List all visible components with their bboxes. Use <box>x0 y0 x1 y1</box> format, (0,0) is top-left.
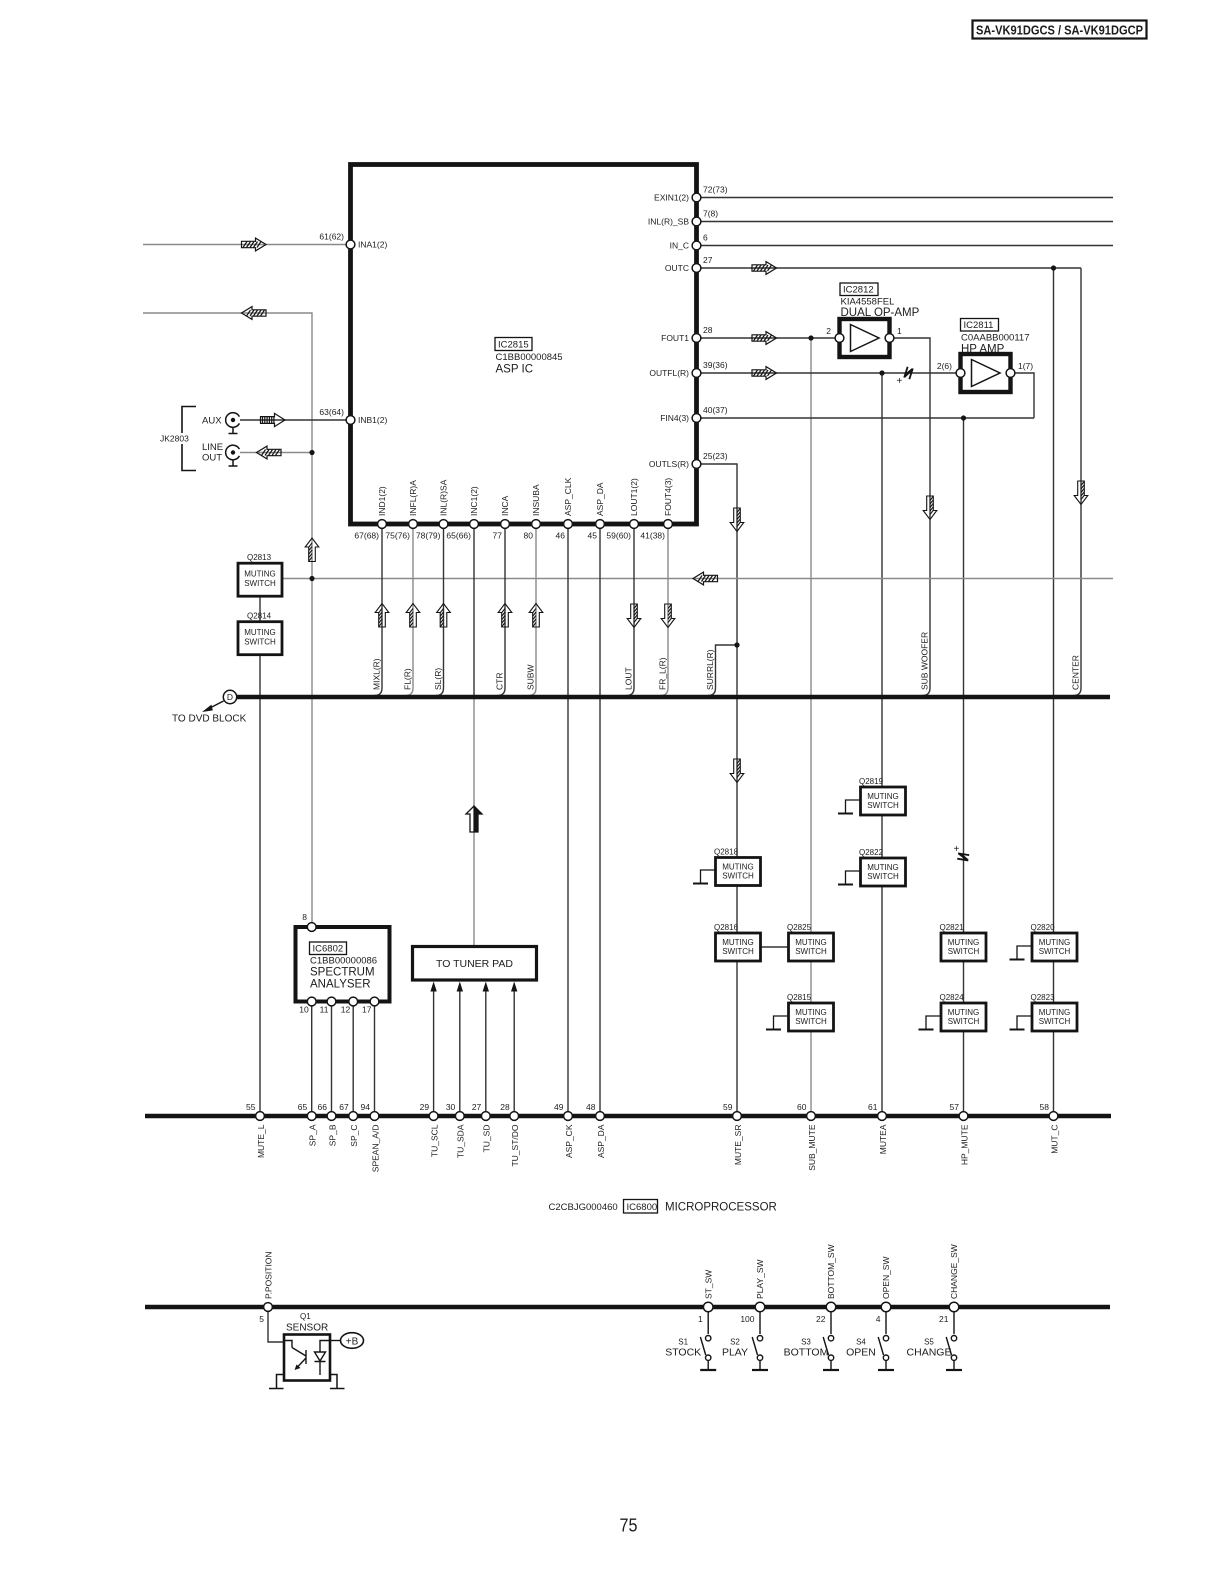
svg-text:Q2815: Q2815 <box>787 993 812 1002</box>
svg-text:OUTLS(R): OUTLS(R) <box>649 459 689 469</box>
arrowhead into tuner pad at 433.6 <box>430 982 436 992</box>
svg-text:SPECTRUM: SPECTRUM <box>310 967 375 979</box>
IC6802 labels <box>310 942 378 991</box>
IC2815 pin 61(62) INA1(2) <box>319 232 387 250</box>
svg-text:Q2814: Q2814 <box>247 612 272 621</box>
IC2815 pin 28 FOUT1 <box>661 325 713 343</box>
IC2815 pin 72(73) EXIN1(2) <box>654 185 728 203</box>
svg-text:Q2821: Q2821 <box>940 923 965 932</box>
svg-text:SP_B: SP_B <box>327 1124 337 1146</box>
IC2815 pin 41(38) FOUT4(3) <box>640 478 673 541</box>
svg-text:60: 60 <box>797 1102 807 1112</box>
connector JK2803 bracket <box>182 407 196 471</box>
ground for Q2822 <box>838 871 861 885</box>
IC6800 pin 28 TU_ST/DO <box>500 1102 520 1167</box>
IC6802 pin 11 <box>320 997 336 1014</box>
ground for Q2824 <box>919 1016 942 1030</box>
svg-text:1: 1 <box>698 1314 703 1324</box>
IC6800 pin 94 SPEAN_A/D <box>361 1102 381 1172</box>
junction at 737,645 <box>734 642 739 647</box>
svg-text:HP AMP: HP AMP <box>961 344 1005 356</box>
muting switch Q2824 <box>940 993 987 1031</box>
junction at 811,338 <box>808 335 813 340</box>
svg-text:Q2825: Q2825 <box>787 923 812 932</box>
arrowhead into tuner pad at 485.8 <box>483 982 489 992</box>
wire INL(R)_SB line <box>701 221 1113 223</box>
svg-text:ASP IC: ASP IC <box>496 364 534 376</box>
svg-text:MIXL(R): MIXL(R) <box>372 658 382 690</box>
svg-text:57: 57 <box>950 1102 960 1112</box>
svg-text:2(6): 2(6) <box>937 361 952 371</box>
svg-text:CTR: CTR <box>495 673 505 690</box>
svg-text:INCA: INCA <box>500 495 510 516</box>
op-amp IC2811 (HP AMP) <box>937 354 1033 392</box>
svg-text:SURRL(R): SURRL(R) <box>705 649 715 690</box>
svg-text:S5: S5 <box>924 1338 934 1347</box>
svg-text:INC1(2): INC1(2) <box>469 486 479 516</box>
wire TU line at 485.8 <box>485 991 487 1112</box>
title box SA-VK91DGCS / SA-VK91DGCP <box>973 21 1147 39</box>
svg-text:4: 4 <box>876 1314 881 1324</box>
svg-text:C2CBJG000460: C2CBJG000460 <box>549 1202 618 1213</box>
svg-text:C1BB00000086: C1BB00000086 <box>310 956 377 967</box>
svg-text:OPEN_SW: OPEN_SW <box>881 1256 891 1299</box>
svg-text:27: 27 <box>703 255 713 265</box>
signal arrow down at 930,507.5 <box>923 496 937 520</box>
microprocessor caption <box>549 1200 777 1214</box>
IC6800 pin 100 net PLAY_SW <box>740 1259 765 1324</box>
svg-text:IN_C: IN_C <box>670 241 689 251</box>
wire IN_C line <box>701 245 1113 247</box>
signal arrow up on LINE OUT net <box>305 538 319 562</box>
wire P.POSITION to sensor <box>268 1312 284 1343</box>
IC6800 pin 59 MUTE_SR <box>723 1102 743 1165</box>
svg-text:SENSOR: SENSOR <box>286 1323 328 1334</box>
svg-text:63(64): 63(64) <box>319 407 344 417</box>
IC6800 pin 27 TU_SD <box>472 1102 492 1152</box>
switch S2 PLAY <box>722 1312 768 1370</box>
IC6800 pin 22 net BOTTOM_SW <box>816 1244 836 1324</box>
op-amp IC2812 (dual op-amp) <box>826 319 902 357</box>
svg-text:Q2813: Q2813 <box>247 553 272 562</box>
signal arrow up on wire 443.5 <box>437 604 451 628</box>
IC2815 pin 27 OUTC <box>665 255 713 273</box>
wire MIXL(R) wire <box>375 529 383 696</box>
svg-text:+: + <box>954 844 960 855</box>
wire SUBW wire <box>529 529 537 696</box>
svg-text:C1BB00000845: C1BB00000845 <box>496 352 563 363</box>
signal arrow up on wire 505 <box>498 604 512 628</box>
svg-text:75: 75 <box>620 1515 638 1536</box>
wire IC6802 pin wire at 353.2 <box>352 1004 354 1112</box>
IC6800 pin 60 SUB_MUTE <box>797 1102 817 1171</box>
svg-text:FOUT4(3): FOUT4(3) <box>663 478 673 516</box>
ground for Q2823 <box>1010 1016 1033 1030</box>
svg-text:Q1: Q1 <box>300 1312 311 1321</box>
svg-text:5: 5 <box>259 1314 264 1324</box>
svg-text:SPEAN_A/D: SPEAN_A/D <box>370 1125 380 1173</box>
wire TU line at 514.2 <box>513 991 515 1112</box>
wire SURRL(R) branch <box>708 645 737 696</box>
svg-text:49: 49 <box>554 1102 564 1112</box>
svg-text:40(37): 40(37) <box>703 405 728 415</box>
svg-text:INB1(2): INB1(2) <box>358 415 387 425</box>
svg-text:MUTE_L: MUTE_L <box>256 1124 266 1158</box>
signal arrow AUX (right, striped) <box>261 413 286 426</box>
svg-text:INL(R)SA: INL(R)SA <box>439 479 449 516</box>
IC6802 pin 12 <box>341 997 358 1014</box>
wire FR_L(R) wire <box>661 529 669 696</box>
svg-text:S4: S4 <box>856 1338 866 1347</box>
svg-text:PLAY_SW: PLAY_SW <box>755 1259 765 1299</box>
junction at 963.5,418 <box>961 415 966 420</box>
IC2815 pin 75(76) INFL(R)A <box>385 480 418 541</box>
svg-text:FIN4(3): FIN4(3) <box>660 413 689 423</box>
ground left of sensor <box>269 1375 284 1389</box>
svg-text:IC6802: IC6802 <box>313 944 344 955</box>
muting switch Q2820 <box>1031 923 1078 961</box>
svg-text:INL(R)_SB: INL(R)_SB <box>648 217 689 227</box>
junction at 882,373 <box>879 370 884 375</box>
bus to DVD block (node D rail) <box>237 695 1111 700</box>
signal arrow mute line (left) <box>693 572 718 585</box>
signal arrow down at 737,770.5 <box>730 759 744 783</box>
arrowhead into tuner pad at 459.8 <box>457 982 463 992</box>
svg-text:ASP_CK: ASP_CK <box>564 1124 574 1158</box>
signal arrow OUTC (right) <box>752 262 777 275</box>
svg-text:ASP_CLK: ASP_CLK <box>563 477 573 516</box>
IC6800 pin 65 SP_A <box>298 1102 318 1146</box>
wire IC6802 pin wire at 331.5 <box>331 1004 333 1112</box>
svg-text:MICROPROCESSOR: MICROPROCESSOR <box>665 1202 777 1214</box>
svg-text:Q2822: Q2822 <box>859 848 884 857</box>
svg-text:TU_SCL: TU_SCL <box>429 1124 439 1157</box>
IC2815 pin 39(36) OUTFL(R) <box>649 360 727 378</box>
svg-text:39(36): 39(36) <box>703 360 728 370</box>
svg-text:SUB WOOFER: SUB WOOFER <box>920 632 930 690</box>
svg-text:INFL(R)A: INFL(R)A <box>408 480 418 516</box>
svg-text:77: 77 <box>493 531 503 541</box>
svg-text:IC2811: IC2811 <box>964 320 994 331</box>
IC2811 labels <box>961 319 1030 356</box>
svg-text:25(23): 25(23) <box>703 451 728 461</box>
svg-text:TU_SD: TU_SD <box>482 1125 492 1153</box>
signal arrow LINE OUT (left) <box>257 446 282 459</box>
svg-text:KIA4558FEL: KIA4558FEL <box>841 297 895 308</box>
IC U-IC6802 spectrum analyser body <box>296 927 390 1002</box>
IC6800 pin 58 MUT_C <box>1040 1102 1060 1154</box>
muting switch Q2825 <box>787 923 834 961</box>
svg-text:11: 11 <box>320 1005 329 1015</box>
capacitor (polarized) on OUTFL(R) line <box>897 367 913 387</box>
wire Q2813-Q2814 link <box>259 596 261 622</box>
wire HP_MUTE line <box>963 418 965 1112</box>
switch S5 CHANGE <box>907 1312 962 1370</box>
wire INC1(2) wire lower <box>473 697 475 946</box>
IC2815 pin 7(8) INL(R)_SB <box>648 209 718 227</box>
svg-text:AUX: AUX <box>202 416 222 427</box>
svg-text:IC2812: IC2812 <box>843 285 874 296</box>
svg-text:61(62): 61(62) <box>319 232 344 242</box>
junction at 312,452.5 <box>309 450 314 455</box>
ground for Q2818 <box>693 870 716 884</box>
svg-text:72(73): 72(73) <box>703 185 728 195</box>
svg-text:OUTC: OUTC <box>665 263 689 273</box>
svg-text:94: 94 <box>361 1102 371 1112</box>
svg-text:61: 61 <box>868 1102 878 1112</box>
signal arrow down at 1081,492.5 <box>1074 481 1088 505</box>
svg-text:22: 22 <box>816 1314 826 1324</box>
svg-text:59(60): 59(60) <box>606 531 631 541</box>
svg-text:6: 6 <box>703 233 708 243</box>
svg-text:66: 66 <box>318 1102 328 1112</box>
IC6800 pin 30 TU_SDA <box>446 1102 466 1158</box>
IC6800 pin 61 MUTEA <box>868 1102 888 1154</box>
wire Q2816-Q2825 link <box>761 946 789 948</box>
wire IC2812 output to SUBWOOFER <box>895 338 931 696</box>
svg-text:IND1(2): IND1(2) <box>377 486 387 516</box>
arrowhead into tuner pad at 514.2 <box>511 982 517 992</box>
IC6800 pin 5 P.POSITION <box>259 1251 273 1324</box>
svg-text:27: 27 <box>472 1102 482 1112</box>
IC6802 pin 8 <box>302 912 316 931</box>
muting switch Q2818 <box>714 847 761 885</box>
svg-text:Q2820: Q2820 <box>1031 923 1056 932</box>
svg-text:ASP_DA: ASP_DA <box>596 1124 606 1158</box>
signal arrow up on wire 536 <box>529 604 543 628</box>
svg-text:100: 100 <box>740 1314 754 1324</box>
svg-text:LOUT1(2): LOUT1(2) <box>629 478 639 516</box>
IC6800 pin 66 SP_B <box>318 1102 338 1146</box>
node D (to DVD block) <box>172 690 247 724</box>
svg-text:EXIN1(2): EXIN1(2) <box>654 193 689 203</box>
wire TU line at 459.8 <box>459 991 461 1112</box>
IC2815 pin 78(79) INL(R)SA <box>416 479 449 540</box>
muting switch Q2823 <box>1031 993 1078 1031</box>
IC2815 pin 63(64) INB1(2) <box>319 407 387 425</box>
microprocessor IC6800 rail <box>145 1114 1111 1119</box>
ground for Q2815 <box>766 1016 789 1030</box>
svg-text:28: 28 <box>500 1102 510 1112</box>
svg-text:Q2824: Q2824 <box>940 993 965 1002</box>
svg-text:CHANGE: CHANGE <box>907 1347 952 1359</box>
svg-text:10: 10 <box>299 1005 309 1015</box>
svg-text:LINE: LINE <box>202 442 223 453</box>
svg-text:FR_L(R): FR_L(R) <box>658 657 668 690</box>
svg-text:67(68): 67(68) <box>354 531 379 541</box>
muting switch Q2816 <box>714 923 761 961</box>
svg-text:7(8): 7(8) <box>703 209 718 219</box>
wire INC1(2) wire to tuner pad <box>473 529 475 698</box>
svg-text:MUT_C: MUT_C <box>1049 1125 1059 1154</box>
svg-text:MUTE_SR: MUTE_SR <box>733 1125 743 1166</box>
svg-text:OUT: OUT <box>202 453 222 464</box>
svg-text:CHANGE_SW: CHANGE_SW <box>949 1244 959 1299</box>
svg-text:21: 21 <box>939 1314 949 1324</box>
svg-text:PLAY: PLAY <box>722 1347 748 1359</box>
svg-text:JK2803: JK2803 <box>160 434 189 444</box>
wire OUTC line <box>701 267 1081 269</box>
ASP IC U-IC2815 body <box>351 165 697 525</box>
junction at 312,578.5 <box>309 576 314 581</box>
signal arrow up on wire 382 <box>375 604 389 628</box>
IC2815 pin 46 ASP_CLK <box>556 477 573 540</box>
svg-text:67: 67 <box>339 1102 349 1112</box>
svg-text:8: 8 <box>302 912 307 922</box>
svg-text:DUAL OP-AMP: DUAL OP-AMP <box>841 307 920 319</box>
svg-text:INSUBA: INSUBA <box>531 484 541 516</box>
wire INA1 input line <box>143 244 346 246</box>
svg-text:59: 59 <box>723 1102 733 1112</box>
signal arrow (large) to tuner pad <box>466 806 482 832</box>
svg-text:FL(R): FL(R) <box>403 668 413 690</box>
wire OUTLS(R) to MUTE_SR line <box>701 464 737 1112</box>
svg-text:46: 46 <box>556 531 566 541</box>
IC2815 pin 59(60) LOUT1(2) <box>606 478 639 540</box>
svg-text:17: 17 <box>362 1005 372 1015</box>
wire LOUT wire <box>627 529 635 696</box>
svg-text:78(79): 78(79) <box>416 531 441 541</box>
IC2815 pin 6 IN_C <box>670 233 708 251</box>
svg-text:65(66): 65(66) <box>446 531 471 541</box>
IC2815 pin 45 ASP_DA <box>588 482 605 540</box>
svg-text:41(38): 41(38) <box>640 531 665 541</box>
signal arrow input2 (left) <box>242 307 267 320</box>
jack AUX <box>202 413 239 434</box>
+B supply <box>330 1333 364 1349</box>
wire FIN4(3) line <box>701 417 1034 419</box>
wire AUX to INB1(2) <box>240 419 346 421</box>
svg-text:STOCK: STOCK <box>665 1347 701 1359</box>
svg-text:OPEN: OPEN <box>846 1347 876 1359</box>
signal arrow down at 668,615.5 <box>661 604 675 628</box>
svg-text:65: 65 <box>298 1102 308 1112</box>
wire IC6802 pin wire at 374.5 <box>374 1004 376 1112</box>
svg-text:SUB_MUTE: SUB_MUTE <box>807 1124 817 1171</box>
IC6800 pin 1 net ST_SW <box>698 1270 713 1324</box>
IC6800 pin 57 HP_MUTE <box>950 1102 970 1165</box>
IC6800 pin 21 net CHANGE_SW <box>939 1244 959 1324</box>
svg-text:SP_A: SP_A <box>308 1124 318 1146</box>
IC6800 pin 67 SP_C <box>339 1102 359 1147</box>
bottom key/switch rail <box>145 1305 1110 1309</box>
IC6800 pin 29 TU_SCL <box>420 1102 440 1157</box>
svg-text:1(7): 1(7) <box>1018 361 1033 371</box>
IC6800 pin 49 ASP_CK <box>554 1102 574 1158</box>
svg-text:29: 29 <box>420 1102 430 1112</box>
switch S1 STOCK <box>665 1312 716 1370</box>
svg-text:SA-VK91DGCS / SA-VK91DGCP: SA-VK91DGCS / SA-VK91DGCP <box>976 23 1143 38</box>
svg-text:28: 28 <box>703 325 713 335</box>
svg-text:HP_MUTE: HP_MUTE <box>959 1124 969 1165</box>
svg-text:SL(R): SL(R) <box>433 668 443 690</box>
wire FOUT1 line <box>701 337 835 339</box>
IC2815 pin 65(66) INC1(2) <box>446 486 479 540</box>
junction at 1053.5,268 <box>1051 265 1056 270</box>
muting switch Q2813 <box>238 553 282 596</box>
svg-text:S1: S1 <box>678 1338 688 1347</box>
svg-text:MUTEA: MUTEA <box>878 1124 888 1154</box>
signal arrow OUTFL(R) (right) <box>752 367 777 380</box>
wire ASP_DA wire <box>599 529 601 1112</box>
svg-text:SUBW: SUBW <box>526 665 536 691</box>
svg-text:C0AABB000117: C0AABB000117 <box>961 333 1030 344</box>
svg-text:P.POSITION: P.POSITION <box>264 1251 274 1299</box>
muting switch Q2814 <box>238 612 282 655</box>
IC6800 pin 4 net OPEN_SW <box>876 1256 891 1324</box>
svg-text:ANALYSER: ANALYSER <box>310 979 371 991</box>
svg-text:30: 30 <box>446 1102 456 1112</box>
wire ASP_CLK wire <box>567 529 569 1112</box>
svg-text:TO TUNER PAD: TO TUNER PAD <box>436 958 513 970</box>
IC2815 pin 80 INSUBA <box>524 484 541 540</box>
svg-text:Q2823: Q2823 <box>1031 993 1056 1002</box>
wire MUTEA line <box>881 373 883 1112</box>
signal arrow INA1 (right) <box>242 238 267 251</box>
svg-text:75(76): 75(76) <box>385 531 410 541</box>
signal arrow down at 634,615.5 <box>627 604 641 628</box>
IC2812 labels <box>840 283 920 319</box>
wire LINE OUT stub <box>240 452 312 454</box>
jack LINE OUT <box>202 442 239 466</box>
muting switch Q2822 <box>859 848 906 886</box>
wire OUTFL(R) line <box>701 372 956 374</box>
wire FL(R) wire <box>406 529 414 696</box>
svg-text:45: 45 <box>588 531 598 541</box>
svg-text:1: 1 <box>897 326 902 336</box>
svg-text:12: 12 <box>341 1005 351 1015</box>
svg-text:LOUT: LOUT <box>624 667 634 690</box>
svg-text:S3: S3 <box>801 1338 811 1347</box>
ground for Q2820 <box>1010 946 1033 960</box>
svg-text:INA1(2): INA1(2) <box>358 240 387 250</box>
to tuner pad block <box>413 947 537 981</box>
wire SUB_MUTE line <box>810 338 812 1112</box>
wire IC6802 pin wire at 311.7 <box>311 1004 313 1112</box>
svg-text:IC2815: IC2815 <box>498 340 529 351</box>
wire TU line at 433.6 <box>433 991 435 1112</box>
wire input line to LINE-OUT net <box>143 313 312 923</box>
muting switch Q2819 <box>859 777 906 815</box>
IC2815 pin 40(37) FIN4(3) <box>660 405 728 423</box>
svg-text:+B: +B <box>346 1336 359 1347</box>
IC2815 label <box>495 338 563 376</box>
svg-text:+: + <box>897 376 903 387</box>
svg-text:CENTER: CENTER <box>1071 655 1081 690</box>
signal arrow up on wire 413 <box>406 604 420 628</box>
svg-text:ASP_DA: ASP_DA <box>595 482 605 516</box>
svg-text:2: 2 <box>826 326 831 336</box>
svg-text:55: 55 <box>246 1102 256 1112</box>
wire muting control line <box>282 578 1113 580</box>
svg-text:TU_SDA: TU_SDA <box>456 1124 466 1158</box>
ground right of sensor <box>330 1375 345 1389</box>
wire CTR wire <box>498 529 506 696</box>
switch S3 BOTTOM <box>784 1312 839 1370</box>
IC6802 pin 10 <box>299 997 316 1014</box>
svg-text:OUTFL(R): OUTFL(R) <box>649 368 689 378</box>
signal arrow FOUT1 (right) <box>752 332 777 345</box>
wire EXIN1(2) line <box>701 197 1113 199</box>
IC2815 pin 67(68) IND1(2) <box>354 486 387 540</box>
muting switch Q2815 <box>787 993 834 1031</box>
svg-text:Q2816: Q2816 <box>714 923 739 932</box>
IC6800 pin 55 MUTE_L <box>246 1102 266 1158</box>
svg-text:IC6800: IC6800 <box>627 1202 658 1213</box>
wire IC2811 output line <box>1015 373 1034 418</box>
ground for Q2819 <box>838 800 861 814</box>
svg-text:ST_SW: ST_SW <box>703 1270 713 1299</box>
